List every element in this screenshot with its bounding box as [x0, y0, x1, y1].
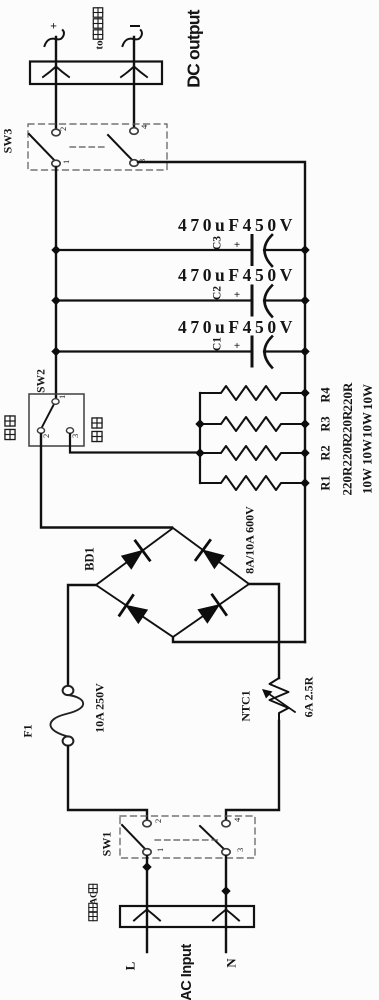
SW3 dashed box — [28, 124, 167, 170]
svg-text:220R: 220R — [340, 437, 355, 467]
svg-text:2: 2 — [58, 127, 68, 131]
svg-text:3: 3 — [70, 434, 80, 438]
DC output terminal block — [30, 62, 162, 85]
wire: SW1 pin1 down to AC socket L — [146, 856, 148, 952]
pin chevron left — [43, 67, 69, 78]
wire: SW2 pin2 down-left to bridge + (top vertex) — [41, 434, 172, 528]
svg-text:2: 2 — [153, 819, 163, 823]
svg-text:+: + — [50, 19, 57, 33]
svg-text:6A 2.5R: 6A 2.5R — [302, 676, 316, 717]
wire: fuse down to SW1 pin2 — [68, 746, 147, 820]
SW1 pin 4 terminal — [222, 820, 230, 827]
NTC1 zigzag — [270, 678, 289, 721]
SW3 pin 2 terminal — [52, 129, 60, 136]
capacitor C1 — [51, 317, 309, 368]
SW3 linkage dashes — [70, 146, 107, 148]
SW3 pole B lever — [108, 135, 134, 162]
SW3 pin 1 terminal — [52, 160, 60, 167]
SW3 pole A lever — [29, 134, 56, 162]
SW2 pin 1 terminal — [52, 399, 59, 405]
svg-text:R4: R4 — [319, 387, 333, 403]
SW1 pin 2 terminal — [143, 820, 151, 827]
wire: bridge AC left vertex to fuse — [68, 585, 96, 685]
svg-text:AC Input: AC Input — [179, 944, 195, 1000]
svg-text:R3: R3 — [319, 416, 333, 431]
SW1 pin 1 terminal — [143, 849, 151, 856]
SW2 lever pin1-pin2 — [41, 404, 54, 429]
NTC1 arrow — [267, 693, 295, 713]
probe hook on + lead — [45, 30, 64, 46]
svg-text:1: 1 — [57, 395, 67, 399]
svg-text:4: 4 — [139, 124, 149, 129]
svg-text:R1: R1 — [319, 475, 333, 490]
svg-text:8A/10A 600V: 8A/10A 600V — [243, 506, 257, 574]
svg-text:470uF450V: 470uF450V — [178, 317, 296, 337]
svg-text:220R: 220R — [340, 466, 355, 496]
svg-text:SW3: SW3 — [1, 129, 15, 154]
svg-text:to: to — [94, 40, 106, 50]
diode D-BL — [126, 605, 147, 623]
AC input terminal block — [120, 906, 254, 927]
svg-text:SW1: SW1 — [100, 832, 114, 857]
label charge 充电 — [5, 429, 15, 439]
svg-text:DC output: DC output — [184, 9, 204, 87]
wire: SW3 pin3 to right rail, right (-) rail down — [138, 162, 305, 642]
fuse F1 symbol — [63, 686, 74, 695]
SW1 pole A lever — [122, 825, 147, 851]
SW1 linkage dashes — [155, 839, 218, 841]
svg-text:C3: C3 — [212, 236, 224, 250]
pin chevron right — [121, 67, 147, 78]
svg-text:+: + — [234, 289, 240, 301]
svg-text:220R: 220R — [340, 410, 355, 440]
capacitor C2 — [51, 265, 309, 317]
wire: SW1 pin3 down to AC socket N — [225, 856, 227, 952]
bridge diamond — [96, 528, 249, 637]
SW3 pin 4 terminal — [130, 128, 138, 135]
wire: bridge AC right vertex down — [249, 584, 279, 678]
SW2 box — [29, 394, 84, 446]
svg-text:F1: F1 — [21, 724, 35, 737]
SW2 pin 3 terminal — [66, 428, 73, 434]
svg-text:BD1: BD1 — [83, 547, 97, 571]
pin chevron L — [134, 910, 160, 921]
resistor R3 — [195, 410, 374, 440]
svg-text:10A 250V: 10A 250V — [93, 683, 107, 733]
diode D-TR — [203, 550, 224, 568]
svg-text:470uF450V: 470uF450V — [178, 215, 296, 235]
svg-text:470uF450V: 470uF450V — [178, 265, 296, 285]
SW3 pin 3 terminal — [130, 160, 138, 167]
junction blob L — [142, 862, 151, 871]
junction blob N — [221, 886, 230, 895]
label - (negative output) — [131, 25, 139, 27]
pin chevron N — [213, 910, 239, 921]
diode D-TL — [122, 551, 143, 569]
SW2 pin 2 terminal — [37, 428, 44, 434]
svg-text:2: 2 — [41, 434, 51, 438]
SW1 pole B lever — [200, 826, 226, 851]
svg-text:220R: 220R — [340, 382, 355, 412]
diode D-BR — [198, 605, 219, 623]
svg-text:N: N — [224, 958, 239, 968]
svg-text:10W: 10W — [360, 468, 375, 494]
svg-text:+: + — [234, 340, 240, 352]
svg-text:R2: R2 — [319, 445, 333, 460]
svg-text:SW2: SW2 — [36, 369, 48, 393]
wire: DC+ output lead (left vertical) — [55, 37, 57, 130]
svg-text:C2: C2 — [212, 286, 224, 300]
svg-text:3: 3 — [235, 848, 245, 852]
wire: left (+) rail from SW3 pin1 down to SW2 pin1 — [55, 167, 57, 399]
svg-text:NTC1: NTC1 — [239, 690, 253, 721]
SW1 dashed box — [120, 816, 255, 858]
capacitor C3 — [51, 215, 309, 266]
resistor bus (left) — [199, 393, 201, 483]
svg-text:C1: C1 — [212, 337, 224, 351]
wire: SW2 pin3 down to resistor bus — [70, 434, 199, 453]
wire: NTC down to SW1 pin4 — [226, 721, 279, 820]
resistor R2 — [195, 437, 374, 467]
wire: DC- output lead (right vertical) — [133, 37, 135, 128]
svg-text:L: L — [123, 961, 138, 970]
label AC socket 输入AC座 — [89, 912, 97, 920]
svg-text:4: 4 — [232, 817, 242, 822]
wire: bridge - (bottom vertex) to right rail — [173, 637, 305, 642]
svg-text:1: 1 — [155, 848, 165, 852]
resistor R1 — [200, 466, 375, 496]
probe hook on - lead — [123, 30, 142, 46]
svg-text:1: 1 — [61, 160, 71, 164]
svg-text:10W: 10W — [360, 384, 375, 410]
resistor R4 — [200, 382, 375, 412]
svg-text:10W: 10W — [360, 412, 375, 438]
label discharge 放电 — [92, 431, 102, 441]
svg-text:10W: 10W — [360, 439, 375, 465]
SW1 pin 3 terminal — [222, 849, 230, 856]
